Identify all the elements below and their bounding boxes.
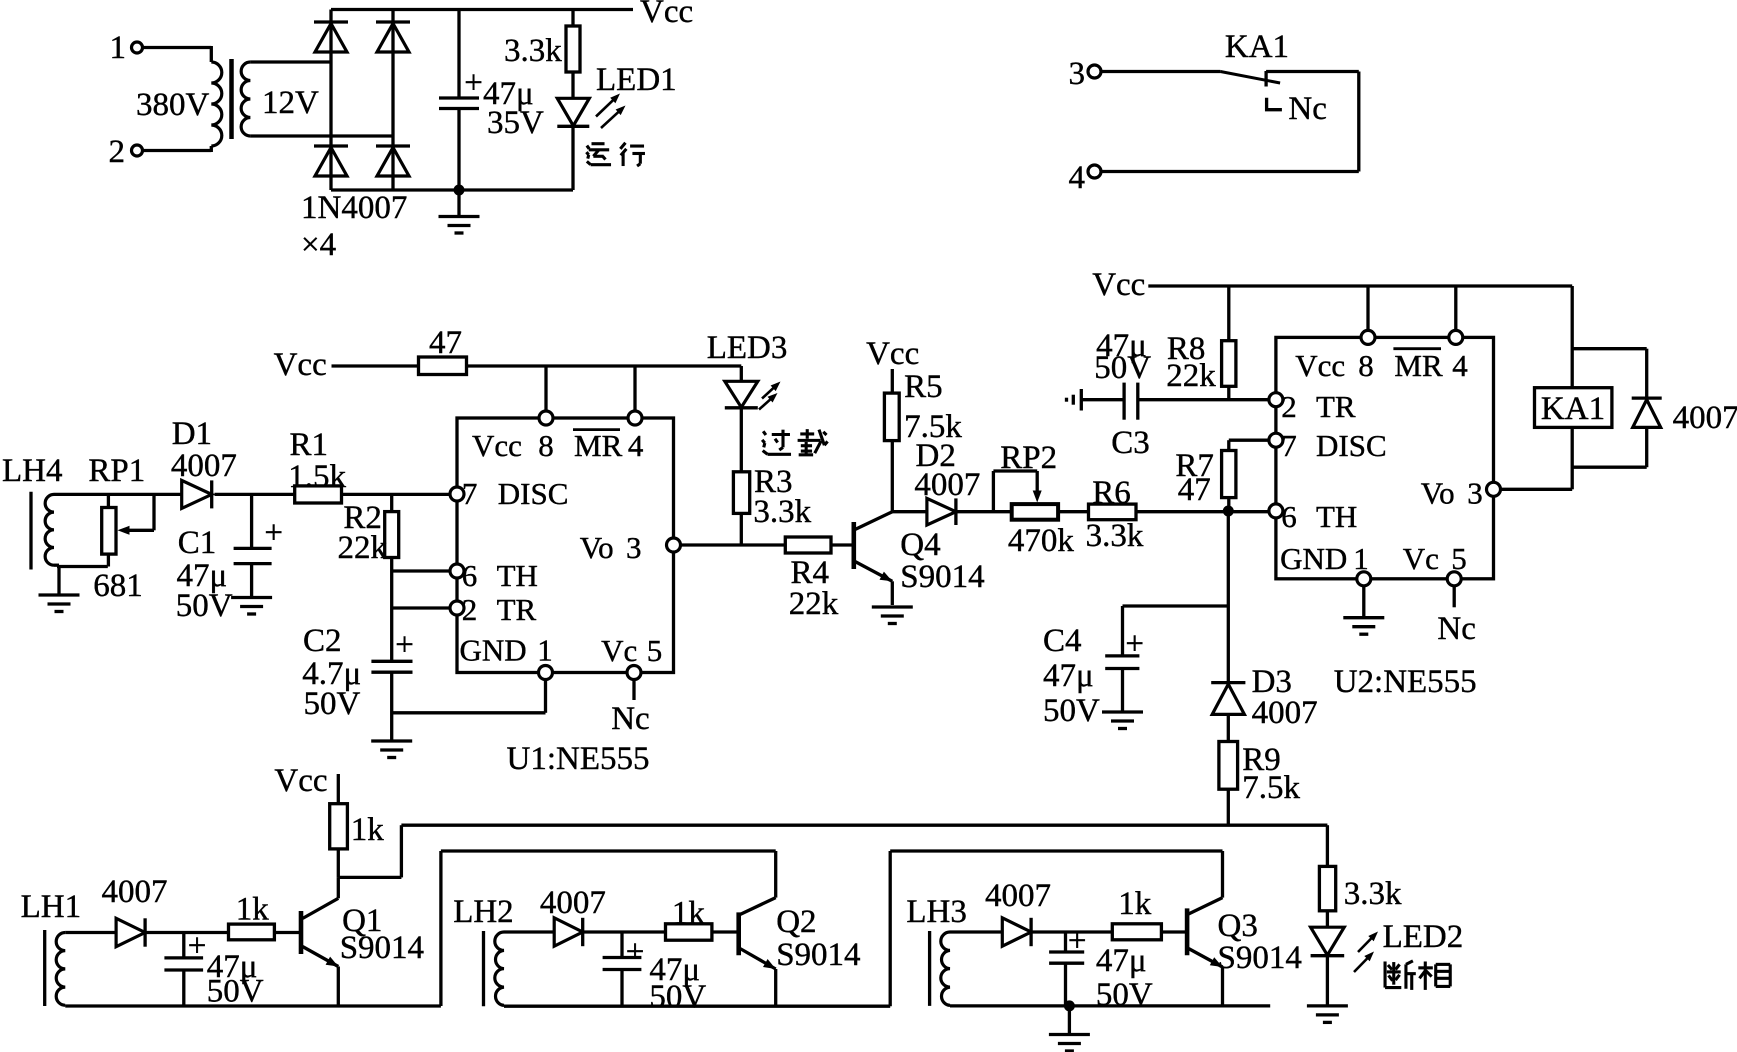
svg-text:6: 6: [1281, 499, 1297, 534]
svg-text:+: +: [395, 627, 414, 663]
svg-text:7: 7: [1281, 428, 1297, 463]
svg-text:35V: 35V: [487, 105, 544, 141]
svg-text:4007: 4007: [985, 878, 1051, 914]
svg-text:5: 5: [647, 633, 663, 668]
svg-text:22k: 22k: [338, 530, 388, 566]
svg-text:RP1: RP1: [88, 453, 145, 489]
svg-text:+: +: [464, 65, 483, 101]
svg-text:3: 3: [626, 530, 642, 565]
svg-text:3.3k: 3.3k: [1086, 518, 1144, 554]
svg-text:C3: C3: [1111, 425, 1150, 461]
svg-text:C1: C1: [178, 525, 217, 561]
svg-text:+: +: [626, 934, 645, 970]
svg-text:Vcc: Vcc: [640, 0, 693, 30]
svg-text:TR: TR: [1316, 389, 1356, 424]
svg-text:+: +: [264, 515, 283, 551]
svg-text:R5: R5: [904, 369, 943, 405]
svg-text:Vcc: Vcc: [274, 763, 327, 799]
svg-text:U1:NE555: U1:NE555: [507, 741, 650, 777]
svg-text:R6: R6: [1092, 475, 1131, 511]
svg-text:Vo: Vo: [1421, 476, 1455, 511]
svg-text:47μ: 47μ: [1043, 658, 1094, 694]
svg-text:7.5k: 7.5k: [1242, 770, 1300, 806]
svg-text:TH: TH: [497, 558, 538, 593]
svg-text:3.3k: 3.3k: [753, 494, 811, 530]
svg-text:3: 3: [1467, 476, 1483, 511]
svg-text:Q3: Q3: [1218, 908, 1258, 944]
svg-text:50V: 50V: [304, 686, 361, 722]
svg-text:1N4007: 1N4007: [301, 190, 407, 226]
svg-text:4007: 4007: [102, 874, 168, 910]
svg-text:4: 4: [1069, 160, 1086, 196]
svg-text:+: +: [188, 928, 207, 964]
svg-text:Vcc: Vcc: [866, 336, 919, 372]
svg-text:681: 681: [93, 568, 143, 604]
svg-text:50V: 50V: [1096, 977, 1153, 1013]
svg-text:C4: C4: [1043, 623, 1082, 659]
svg-text:×4: ×4: [301, 227, 336, 263]
svg-text:LED3: LED3: [707, 330, 788, 366]
svg-text:C2: C2: [303, 623, 342, 659]
svg-text:50V: 50V: [649, 979, 706, 1015]
svg-text:+: +: [1125, 626, 1144, 662]
svg-text:LH2: LH2: [453, 894, 514, 930]
svg-text:4007: 4007: [540, 885, 606, 921]
svg-text:1: 1: [110, 30, 127, 66]
svg-text:LH3: LH3: [906, 894, 967, 930]
svg-text:+: +: [1068, 923, 1087, 959]
svg-text:5: 5: [1451, 541, 1467, 576]
svg-text:MR: MR: [574, 428, 623, 463]
svg-text:TH: TH: [1316, 499, 1357, 534]
svg-text:50V: 50V: [1043, 693, 1100, 729]
svg-text:2: 2: [1281, 389, 1297, 424]
svg-text:12V: 12V: [262, 85, 319, 121]
svg-text:LH1: LH1: [21, 889, 82, 925]
svg-text:3.3k: 3.3k: [504, 33, 562, 69]
svg-text:4: 4: [1452, 348, 1468, 383]
svg-text:Vc: Vc: [1403, 541, 1439, 576]
svg-text:GND: GND: [1280, 541, 1347, 576]
svg-text:D1: D1: [172, 416, 212, 452]
svg-text:LED2: LED2: [1383, 919, 1464, 955]
svg-text:KA1: KA1: [1541, 391, 1605, 427]
svg-text:KA1: KA1: [1225, 29, 1289, 65]
svg-text:50V: 50V: [1094, 350, 1151, 386]
svg-text:470k: 470k: [1008, 523, 1075, 559]
svg-text:GND: GND: [460, 633, 527, 668]
svg-text:1: 1: [1353, 541, 1369, 576]
svg-text:Vcc: Vcc: [1295, 348, 1345, 383]
svg-text:1: 1: [537, 633, 553, 668]
svg-text:47: 47: [429, 325, 462, 361]
svg-text:47: 47: [1178, 472, 1211, 508]
svg-text:2: 2: [462, 592, 478, 627]
svg-text:4007: 4007: [1252, 695, 1318, 731]
svg-text:4007: 4007: [914, 467, 980, 503]
svg-text:4007: 4007: [1673, 400, 1737, 436]
svg-text:Vo: Vo: [580, 530, 614, 565]
svg-text:1k: 1k: [672, 896, 706, 932]
svg-text:8: 8: [538, 428, 554, 463]
svg-text:380V: 380V: [136, 87, 210, 123]
svg-text:Vcc: Vcc: [472, 428, 522, 463]
svg-text:Vcc: Vcc: [274, 347, 327, 383]
svg-text:S9014: S9014: [1218, 940, 1302, 976]
svg-text:1k: 1k: [1118, 886, 1152, 922]
svg-text:LH4: LH4: [2, 453, 63, 489]
svg-text:U2:NE555: U2:NE555: [1334, 664, 1477, 700]
svg-text:1k: 1k: [236, 892, 269, 928]
svg-text:S9014: S9014: [900, 559, 984, 595]
svg-text:DISC: DISC: [498, 476, 569, 511]
svg-text:8: 8: [1358, 348, 1374, 383]
svg-text:TR: TR: [497, 592, 537, 627]
svg-text:1.5k: 1.5k: [288, 459, 346, 495]
svg-text:Vcc: Vcc: [1092, 267, 1145, 303]
svg-text:4: 4: [628, 428, 644, 463]
svg-text:6: 6: [462, 558, 478, 593]
svg-text:R1: R1: [290, 427, 329, 463]
svg-text:50V: 50V: [176, 588, 233, 624]
svg-text:Q4: Q4: [900, 527, 940, 563]
svg-text:7: 7: [462, 476, 478, 511]
svg-text:50V: 50V: [207, 974, 264, 1010]
svg-text:2: 2: [109, 134, 126, 170]
svg-text:3: 3: [1069, 56, 1086, 92]
svg-text:22k: 22k: [1166, 358, 1216, 394]
svg-text:MR: MR: [1394, 348, 1443, 383]
svg-text:Q2: Q2: [776, 904, 816, 940]
svg-text:47μ: 47μ: [1096, 943, 1147, 979]
svg-text:Vc: Vc: [601, 633, 637, 668]
svg-text:3.3k: 3.3k: [1344, 876, 1402, 912]
svg-text:S9014: S9014: [340, 930, 424, 966]
svg-text:Nc: Nc: [1437, 611, 1475, 647]
svg-text:22k: 22k: [789, 586, 839, 622]
svg-text:1k: 1k: [351, 812, 385, 848]
svg-text:Nc: Nc: [1288, 91, 1326, 127]
svg-text:DISC: DISC: [1316, 428, 1387, 463]
svg-text:S9014: S9014: [776, 937, 860, 973]
svg-text:Nc: Nc: [611, 701, 649, 737]
svg-text:LED1: LED1: [596, 62, 677, 98]
